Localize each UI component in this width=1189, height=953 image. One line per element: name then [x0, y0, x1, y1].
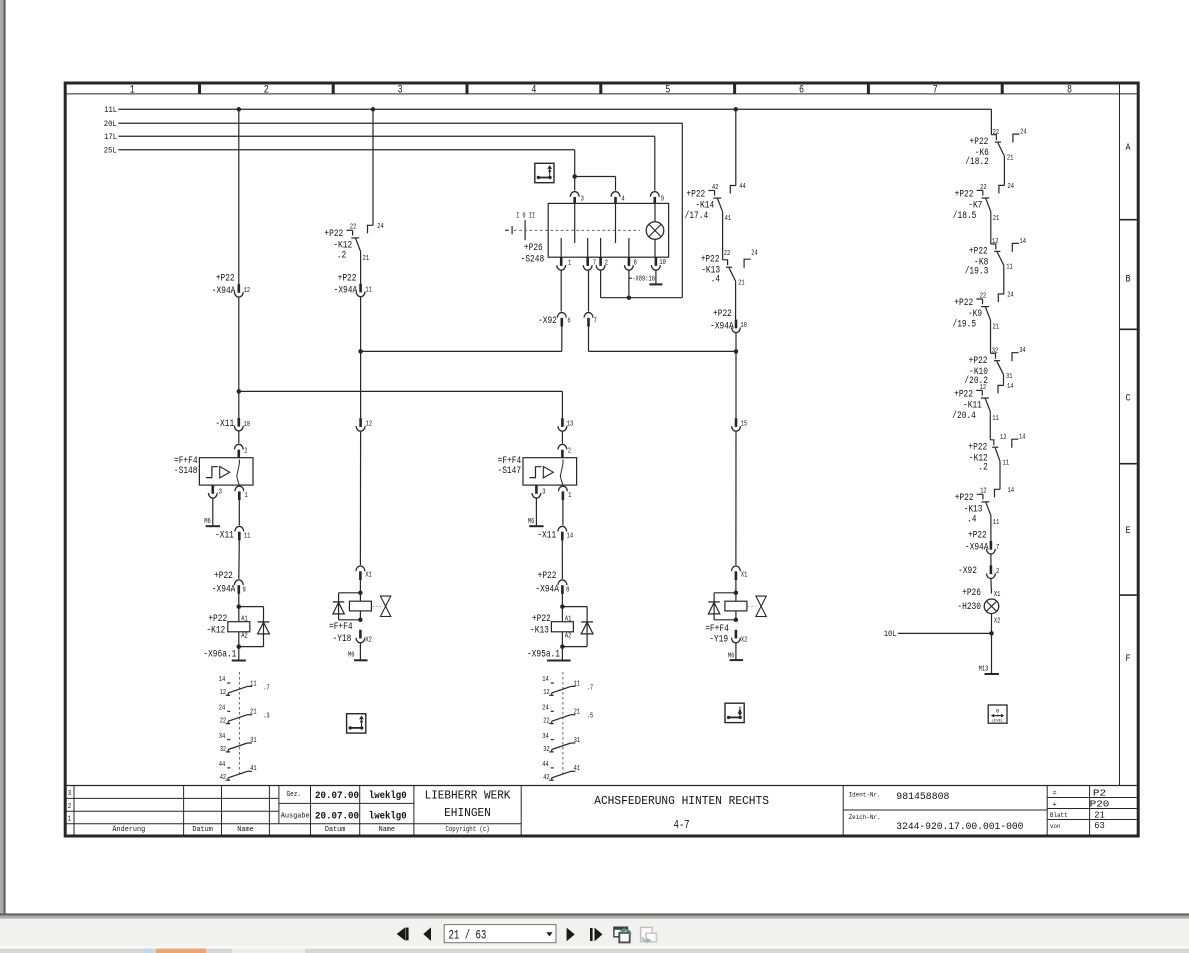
svg-text:21: 21 — [250, 709, 257, 717]
svg-text:11: 11 — [1003, 460, 1010, 468]
svg-text:21: 21 — [1094, 810, 1105, 820]
svg-text:7: 7 — [933, 84, 938, 96]
svg-text:-K13: -K13 — [530, 624, 549, 635]
wire — [735, 643, 737, 660]
svg-text:11L: 11L — [104, 105, 117, 115]
svg-text:2: 2 — [264, 84, 269, 96]
connector -Y19 X1 — [732, 566, 748, 580]
indicator lamp -H230 — [957, 587, 1000, 626]
svg-text:A1: A1 — [241, 615, 248, 623]
drawing number — [849, 814, 1024, 833]
svg-text:+P22: +P22 — [713, 308, 732, 319]
svg-text:F: F — [1126, 654, 1131, 665]
row letter band line — [1119, 83, 1121, 786]
svg-text:3: 3 — [68, 790, 72, 798]
wire — [562, 500, 564, 525]
title block header labels — [112, 825, 489, 834]
row band ticks — [1120, 220, 1137, 595]
junction 25L branch — [572, 174, 577, 179]
svg-text:A: A — [1126, 143, 1131, 154]
svg-text:14: 14 — [567, 533, 574, 541]
svg-text:-Y18: -Y18 — [333, 633, 352, 644]
svg-text:8: 8 — [1067, 84, 1072, 96]
svg-text:24: 24 — [542, 705, 549, 713]
svg-text:24: 24 — [751, 250, 758, 258]
svg-text:M6: M6 — [528, 518, 535, 526]
wire — [991, 633, 993, 674]
connector -X11:11 — [215, 526, 251, 540]
svg-text:7: 7 — [593, 260, 596, 268]
pressure switch -S147 — [498, 455, 577, 485]
wire 10L — [884, 629, 992, 639]
svg-text:4-7: 4-7 — [674, 819, 690, 832]
svg-text:42: 42 — [543, 774, 550, 782]
svg-text:24: 24 — [377, 223, 384, 231]
svg-text:44: 44 — [219, 761, 226, 769]
contact -K7 — [953, 156, 1015, 223]
svg-text:34: 34 — [542, 733, 549, 741]
junction row 351 right — [734, 349, 739, 354]
wire — [588, 327, 590, 352]
connector X92:7 — [584, 312, 597, 326]
svg-text:+P22: +P22 — [214, 570, 233, 581]
svg-text:7: 7 — [594, 318, 597, 326]
valve solenoid -Y18 — [333, 591, 391, 623]
pictogram axle link top — [535, 163, 554, 182]
svg-text:.7: .7 — [263, 684, 270, 692]
column header band line — [65, 93, 1137, 95]
title block Gez row — [287, 790, 407, 802]
taskbar segments — [232, 949, 305, 953]
svg-text:41: 41 — [725, 215, 732, 223]
contact -K6 — [965, 129, 1027, 168]
svg-text:Name: Name — [237, 826, 253, 834]
svg-text:+P22: +P22 — [955, 188, 974, 199]
svg-text:+P22: +P22 — [538, 570, 557, 581]
svg-text:0: 0 — [996, 707, 999, 714]
svg-text:22: 22 — [543, 718, 550, 726]
svg-text:11: 11 — [244, 533, 251, 541]
next page button — [567, 928, 575, 942]
svg-text:B: B — [1126, 274, 1131, 285]
svg-text:11: 11 — [250, 680, 257, 688]
svg-text:11: 11 — [574, 680, 581, 688]
connector S248 pin7 — [583, 257, 596, 270]
svg-text:14: 14 — [1019, 434, 1026, 442]
svg-text:+P26: +P26 — [524, 242, 543, 253]
svg-text:Name: Name — [379, 826, 395, 834]
svg-text:1: 1 — [568, 492, 572, 500]
svg-text:+P22: +P22 — [955, 492, 974, 503]
svg-text:3: 3 — [398, 84, 403, 96]
connector S148 pin1 — [235, 486, 248, 500]
svg-text:4: 4 — [531, 84, 536, 96]
next view button (disabled) — [641, 927, 657, 943]
svg-text:7: 7 — [996, 544, 999, 552]
bus 11L — [104, 105, 991, 115]
svg-text:Gez.: Gez. — [287, 791, 301, 799]
svg-text:.2: .2 — [337, 250, 347, 261]
svg-text:3: 3 — [581, 196, 585, 204]
svg-text:14: 14 — [1008, 487, 1015, 495]
svg-text:-X94A: -X94A — [334, 284, 358, 295]
svg-text:Ident-Nr.: Ident-Nr. — [849, 792, 881, 800]
svg-text:12: 12 — [1000, 434, 1007, 442]
connector -Y18 X2 — [356, 630, 372, 645]
ground M6 S148 — [204, 518, 220, 526]
svg-text:2: 2 — [244, 447, 248, 455]
svg-text:10: 10 — [659, 259, 666, 267]
relay coil -K13 with diode — [530, 604, 593, 649]
pressure switch -S148 — [174, 455, 253, 485]
connector -X11:10 — [215, 418, 250, 431]
wire 25L corner down — [574, 150, 576, 177]
ground -X96a.1 — [203, 648, 245, 660]
wire row 351 left — [361, 350, 562, 352]
revision numbers — [68, 790, 72, 823]
svg-text:14: 14 — [542, 676, 549, 684]
wire — [359, 580, 361, 593]
svg-text:P2: P2 — [1093, 789, 1106, 799]
connector S147 pin1 — [559, 486, 572, 500]
svg-text:1: 1 — [68, 816, 72, 824]
svg-text:+P22: +P22 — [954, 388, 973, 399]
svg-text:E: E — [1126, 526, 1131, 537]
svg-text:10L: 10L — [884, 629, 897, 639]
svg-text:/20.4: /20.4 — [952, 410, 976, 421]
svg-text:9: 9 — [243, 587, 247, 595]
wire — [359, 643, 361, 660]
svg-text:A2: A2 — [241, 632, 248, 640]
svg-text:-H230: -H230 — [957, 601, 981, 612]
connector 12 — [356, 418, 372, 431]
svg-text:+P26: +P26 — [962, 587, 981, 598]
svg-text:24: 24 — [1007, 292, 1014, 300]
valve solenoid -Y19 — [708, 591, 766, 623]
svg-text:12: 12 — [992, 238, 999, 246]
svg-text:=F+F4: =F+F4 — [329, 621, 353, 632]
svg-text:13: 13 — [567, 421, 574, 429]
svg-text:X2: X2 — [365, 637, 372, 645]
connector S148 pin3 — [208, 485, 222, 498]
svg-text:21: 21 — [993, 215, 1000, 223]
left window edge strip — [0, 0, 3, 916]
svg-text:+: + — [1053, 801, 1057, 809]
outer frame — [65, 83, 1138, 836]
svg-text:8: 8 — [634, 260, 638, 268]
svg-text:8: 8 — [566, 587, 570, 595]
connector S248 pin9 — [650, 192, 664, 206]
connector S248 pin4 — [611, 192, 625, 206]
company name — [425, 789, 511, 820]
svg-text:+P22: +P22 — [324, 228, 343, 239]
wire pin10 to ground -X89 — [655, 271, 657, 285]
svg-text:1: 1 — [245, 492, 249, 500]
svg-text:31: 31 — [574, 737, 581, 745]
wire pin7 down — [588, 271, 590, 312]
svg-text:20L: 20L — [104, 119, 117, 129]
junction col2/row — [237, 389, 242, 394]
connector S248 pin10 — [652, 257, 667, 270]
svg-text:12: 12 — [366, 421, 373, 429]
junction 10L — [989, 631, 994, 636]
title block Ausgabe row — [281, 811, 407, 823]
connector S147 pin3 — [532, 485, 546, 498]
svg-text:.5: .5 — [587, 713, 594, 721]
wire — [535, 498, 537, 526]
svg-text:31: 31 — [1006, 373, 1013, 381]
svg-text:20.07.00: 20.07.00 — [315, 790, 359, 802]
sheet info table — [1050, 789, 1109, 832]
svg-text:/19.3: /19.3 — [965, 266, 989, 277]
svg-text:.4: .4 — [711, 273, 721, 284]
contact -K10 — [964, 347, 1026, 386]
svg-text:-X94A: -X94A — [535, 584, 559, 595]
column ticks — [200, 82, 1003, 94]
svg-text:14: 14 — [1007, 383, 1014, 391]
svg-text:.3: .3 — [263, 713, 270, 721]
svg-text:M6: M6 — [204, 518, 211, 526]
relay coil -K12 with diode — [206, 604, 269, 649]
wire — [212, 498, 214, 526]
wire — [735, 580, 737, 593]
svg-text:24: 24 — [1020, 129, 1027, 137]
svg-text:10: 10 — [244, 421, 251, 429]
svg-text:+P22: +P22 — [532, 613, 551, 624]
svg-text:21: 21 — [363, 255, 370, 263]
svg-text:-X92: -X92 — [958, 565, 977, 576]
svg-text:Copyright (c): Copyright (c) — [446, 826, 490, 834]
svg-text:-S147: -S147 — [498, 465, 522, 476]
ground X89 — [649, 283, 662, 285]
svg-text:42: 42 — [220, 774, 227, 782]
svg-text:Datum: Datum — [325, 826, 346, 834]
junction pin8 — [627, 295, 632, 300]
bottom toolbar area — [0, 913, 1189, 915]
svg-text:2: 2 — [68, 803, 72, 811]
svg-text:9: 9 — [661, 196, 665, 204]
wire — [735, 281, 737, 319]
connector S147 pin2 — [558, 444, 571, 458]
svg-text:Datum: Datum — [192, 826, 213, 834]
svg-text:6: 6 — [799, 84, 804, 96]
svg-text:22: 22 — [980, 292, 987, 300]
svg-text:22: 22 — [993, 129, 1000, 137]
svg-text:+P22: +P22 — [968, 529, 987, 540]
connector -Y19 X2 — [732, 630, 748, 645]
svg-text:17L: 17L — [104, 132, 117, 142]
svg-text:1: 1 — [130, 84, 135, 96]
svg-text:22: 22 — [350, 224, 357, 232]
svg-text:+P22: +P22 — [216, 273, 235, 284]
wire — [238, 500, 240, 525]
ident number — [849, 791, 950, 803]
wire — [238, 298, 240, 392]
svg-text:+P22: +P22 — [970, 136, 989, 147]
bus 17L — [104, 132, 655, 142]
svg-text:.4: .4 — [967, 514, 977, 525]
wire — [360, 297, 362, 351]
wire — [735, 351, 737, 418]
wire — [238, 540, 241, 579]
contact -K11 — [952, 375, 1014, 423]
svg-text:2: 2 — [605, 260, 609, 268]
svg-text:von: von — [1050, 823, 1061, 831]
connector -X11:13 — [558, 418, 574, 431]
svg-text:Blatt: Blatt — [1050, 812, 1068, 820]
connector -X94A:8 — [535, 570, 569, 595]
svg-text:EHINGEN: EHINGEN — [444, 807, 491, 820]
connector S248 pin1 — [557, 257, 572, 270]
contact -K13 (22-21) — [701, 250, 758, 288]
wire — [238, 594, 240, 607]
svg-text:.7: .7 — [587, 684, 594, 692]
svg-text:+P22: +P22 — [208, 613, 227, 624]
svg-text:32: 32 — [220, 746, 227, 754]
svg-text:-X92: -X92 — [538, 315, 557, 326]
svg-text:3244-920.17.00.001-000: 3244-920.17.00.001-000 — [896, 821, 1023, 833]
wire — [238, 647, 240, 660]
svg-text:-X11: -X11 — [215, 530, 234, 541]
svg-text:-X89:16: -X89:16 — [632, 275, 655, 283]
svg-text:21: 21 — [738, 280, 745, 288]
svg-text:1: 1 — [568, 260, 572, 268]
contact -K14 (42-41) — [685, 109, 747, 223]
svg-text:/18.2: /18.2 — [965, 156, 989, 167]
page number box — [444, 925, 556, 943]
svg-text:34: 34 — [1019, 347, 1026, 355]
svg-text:25L: 25L — [104, 145, 117, 155]
switch unit -S248 box — [548, 203, 668, 257]
junction 11L col2 — [237, 107, 242, 112]
svg-text:21: 21 — [1007, 154, 1014, 162]
svg-text:lweklg0: lweklg0 — [369, 790, 407, 802]
svg-text:12: 12 — [980, 384, 987, 392]
svg-text:=F+F4: =F+F4 — [705, 623, 729, 634]
svg-text:14: 14 — [1020, 238, 1027, 246]
svg-text:12: 12 — [220, 689, 227, 697]
wire pin1 down — [560, 271, 562, 312]
connector S248 pin2 — [596, 257, 608, 270]
svg-text:12: 12 — [244, 287, 251, 295]
connector S148 pin2 — [234, 444, 247, 458]
contact -K13 — [955, 461, 1015, 527]
wire — [989, 412, 991, 440]
svg-text:.2: .2 — [978, 461, 988, 472]
svg-text:31: 31 — [250, 737, 257, 745]
svg-text:11: 11 — [993, 519, 1000, 527]
pictogram axle raise Y18 — [347, 714, 366, 733]
S248 internal stubs — [561, 203, 629, 257]
svg-text:-X11: -X11 — [537, 530, 556, 541]
drawing title — [594, 795, 769, 832]
contact table -K12 — [219, 672, 270, 782]
svg-text:X1: X1 — [741, 572, 748, 580]
svg-text:22: 22 — [724, 250, 731, 258]
connector S248 pin8 — [625, 257, 638, 270]
svg-text:24: 24 — [219, 705, 226, 713]
wire — [735, 333, 737, 351]
svg-text:63: 63 — [1094, 821, 1105, 831]
svg-text:5: 5 — [665, 84, 670, 96]
svg-text:I 0 II: I 0 II — [516, 212, 535, 220]
junction row 351 — [358, 349, 363, 354]
svg-text:-X11: -X11 — [215, 418, 234, 429]
wire 20L corner down — [681, 123, 683, 298]
svg-text:981458808: 981458808 — [896, 791, 949, 803]
svg-text:21: 21 — [574, 709, 581, 717]
svg-text:+P22: +P22 — [969, 355, 988, 366]
pictogram axle lower Y19 — [725, 703, 744, 722]
svg-text:X1: X1 — [994, 591, 1001, 599]
connector -X94A:12 — [212, 273, 251, 297]
contact -K12 (22-21) — [324, 109, 384, 263]
svg-text:Änderung: Änderung — [112, 825, 145, 834]
connector -X94A:7 — [965, 529, 999, 554]
selector I 0 II — [505, 212, 640, 240]
ground M13 — [979, 666, 999, 674]
bus 20L — [104, 119, 683, 129]
wire — [561, 327, 563, 352]
first page button — [397, 927, 409, 941]
wire pin2 loop — [600, 271, 602, 298]
svg-text:22: 22 — [980, 184, 987, 192]
svg-text:14: 14 — [219, 676, 226, 684]
svg-text:3: 3 — [219, 489, 223, 497]
svg-text:24: 24 — [1008, 183, 1015, 191]
wire — [990, 555, 992, 566]
svg-text:10: 10 — [740, 322, 747, 330]
svg-text:2: 2 — [568, 447, 572, 455]
svg-text:2: 2 — [996, 568, 1000, 576]
svg-text:lweklg0: lweklg0 — [369, 811, 407, 823]
svg-text:X2: X2 — [994, 618, 1001, 626]
wire — [722, 212, 724, 260]
pictogram level 0 — [988, 705, 1007, 723]
svg-text:11: 11 — [365, 287, 372, 295]
ground M6 S147 — [528, 518, 544, 526]
wire — [990, 516, 992, 542]
last page button — [590, 928, 603, 942]
junction 11L col3 — [371, 107, 376, 112]
ground -X95a.1 — [527, 648, 571, 660]
connector 15 — [732, 418, 748, 431]
svg-text:44: 44 — [739, 183, 746, 191]
title block grid — [65, 786, 1137, 836]
svg-text:-S248: -S248 — [521, 254, 545, 265]
svg-text:21 / 63: 21 / 63 — [449, 929, 487, 943]
connector -X92:6 — [538, 313, 571, 327]
svg-text:41: 41 — [250, 765, 257, 773]
ground M6 Y19 — [728, 652, 743, 660]
svg-text:/19.5: /19.5 — [953, 318, 977, 329]
svg-text:Zeich-Nr.: Zeich-Nr. — [849, 814, 881, 822]
wire — [735, 432, 737, 565]
wire 17L corner down — [654, 136, 656, 190]
connector -X11:14 — [537, 526, 573, 540]
svg-text:Ausgabe: Ausgabe — [281, 812, 310, 820]
svg-text:-X94A: -X94A — [212, 584, 236, 595]
wire — [561, 594, 563, 607]
svg-text:42: 42 — [712, 184, 719, 192]
svg-text:20.07.00: 20.07.00 — [315, 811, 359, 823]
labels -Y18 — [329, 621, 353, 644]
bus 25L — [104, 145, 575, 155]
svg-text:32: 32 — [992, 347, 999, 355]
svg-text:3: 3 — [542, 489, 546, 497]
svg-text:+P22: +P22 — [338, 272, 357, 283]
svg-text:+P22: +P22 — [954, 297, 973, 308]
